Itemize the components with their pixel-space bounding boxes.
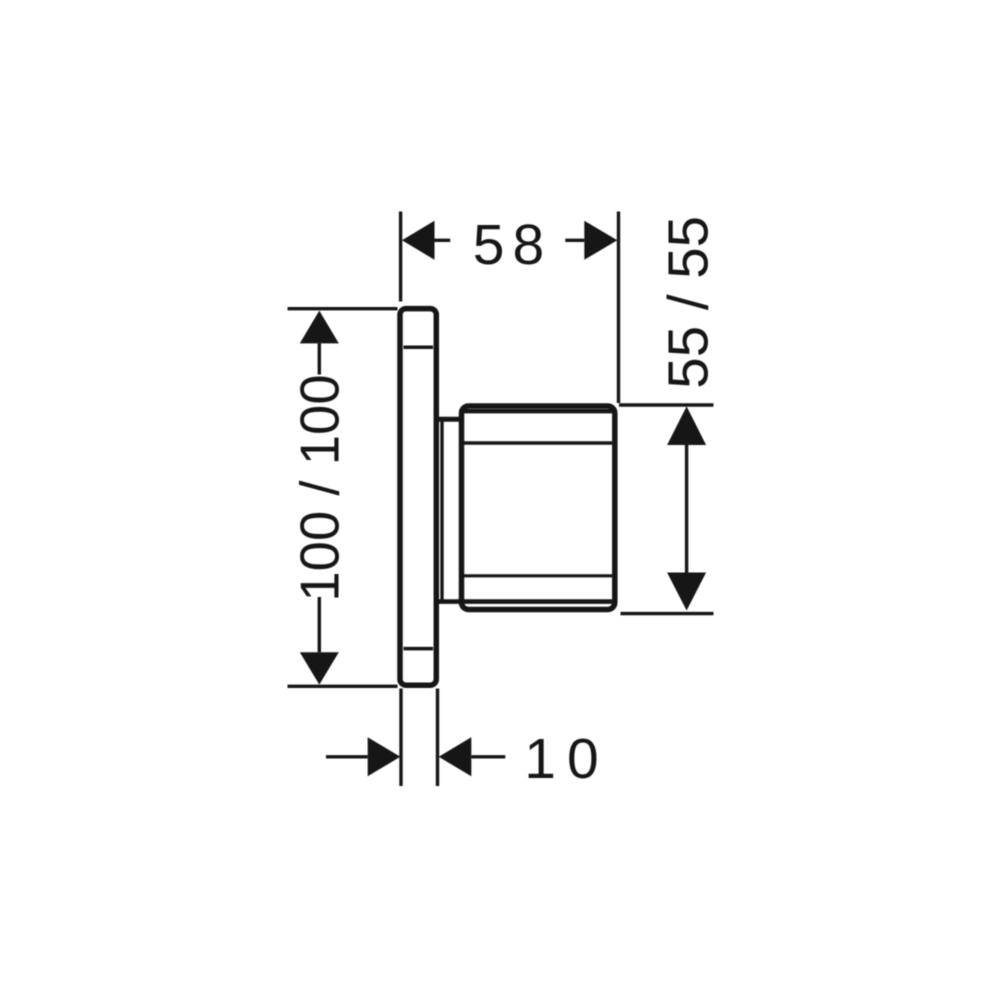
dim 10 right arrow pointing left bbox=[439, 737, 472, 776]
dim 58 right extension line bbox=[617, 212, 620, 404]
body thin line upper bbox=[464, 441, 612, 444]
body inner top line bbox=[464, 409, 612, 413]
dim 58 left tail line bbox=[435, 239, 451, 242]
dim 100 down arrow bbox=[300, 652, 339, 684]
dim 10 right extension line bbox=[436, 689, 439, 787]
dim 10 right tail line bbox=[471, 755, 505, 758]
dim 55 bottom extension line bbox=[621, 612, 714, 615]
dim 58 right tail line bbox=[565, 239, 584, 242]
plate inner top line bbox=[404, 346, 434, 350]
svg-text:10: 10 bbox=[524, 727, 609, 791]
valve body (side view outer outline) bbox=[462, 406, 615, 610]
svg-text:100 / 100: 100 / 100 bbox=[289, 374, 350, 601]
neck top edge bbox=[439, 417, 463, 422]
dim 55 up arrow bbox=[667, 406, 706, 445]
dim 100 line lower segment bbox=[318, 597, 321, 652]
neck bottom edge continuing as body inner bottom line bbox=[439, 599, 613, 604]
dim 55 down arrow bbox=[667, 573, 706, 611]
dim 10 left tail line bbox=[326, 755, 368, 758]
dim 58 left arrow bbox=[402, 221, 435, 260]
dim 58 left extension line bbox=[399, 212, 402, 302]
dim 100 bottom extension line bbox=[288, 685, 398, 688]
dim 100 top extension line bbox=[288, 307, 398, 310]
body thin line lower bbox=[464, 574, 612, 577]
dim 10 left arrow pointing right bbox=[368, 737, 401, 776]
dim 100 up arrow bbox=[300, 311, 339, 344]
svg-text:58: 58 bbox=[473, 213, 552, 277]
dim 10 left extension line bbox=[399, 689, 402, 787]
dim 58 right arrow bbox=[584, 221, 617, 260]
svg-text:55 / 55: 55 / 55 bbox=[656, 216, 719, 389]
neck left thin line bbox=[440, 418, 443, 601]
dim 55 vertical line bbox=[685, 445, 688, 573]
plate inner bottom line bbox=[404, 647, 434, 651]
dim 100 line upper segment bbox=[318, 343, 321, 374]
dim 55 top extension line bbox=[619, 403, 714, 406]
escutcheon plate (side view outer outline) bbox=[400, 309, 436, 686]
